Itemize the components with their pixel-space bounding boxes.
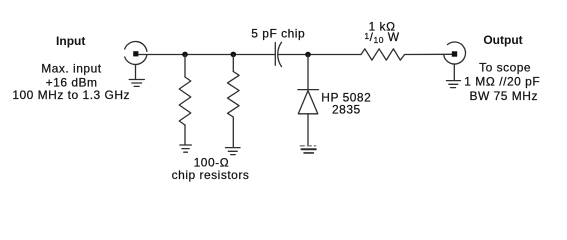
- ground (R2): [226, 148, 241, 155]
- svg-text:Max. input: Max. input: [41, 62, 102, 76]
- resistor R1 (left 100-ohm chip): [179, 55, 191, 145]
- ground (input BNC shell): [129, 65, 144, 87]
- output BNC connector J2: [444, 42, 466, 64]
- svg-text:1 MΩ //20 pF: 1 MΩ //20 pF: [464, 75, 540, 89]
- resistor R2 (right 100-ohm chip): [228, 55, 240, 148]
- node junction at diode D1: [305, 52, 311, 58]
- svg-text:Input: Input: [56, 34, 85, 48]
- ground (output BNC shell): [447, 64, 461, 87]
- capacitor C1 5 pF chip: [275, 42, 281, 66]
- wire: input jack to capacitor: [138, 54, 274, 56]
- ground (D1): [300, 146, 316, 153]
- svg-text:chip resistors: chip resistors: [172, 168, 250, 182]
- svg-text:5 pF chip: 5 pF chip: [251, 26, 305, 40]
- svg-text:To scope: To scope: [479, 60, 531, 74]
- wire: capacitor to resistor R3: [279, 54, 362, 56]
- svg-text:BW 75 MHz: BW 75 MHz: [469, 89, 538, 103]
- node junction at R1: [182, 52, 188, 58]
- input BNC connector J1: [125, 41, 147, 64]
- diode D1 HP 5082-2835: [298, 55, 319, 146]
- svg-text:2835: 2835: [332, 103, 361, 117]
- ground (R1): [180, 145, 192, 152]
- node junction at R2: [231, 52, 237, 58]
- wire: resistor R3 to output jack: [405, 53, 452, 55]
- svg-text:Output: Output: [483, 33, 522, 47]
- svg-text:100 MHz to 1.3 GHz: 100 MHz to 1.3 GHz: [12, 88, 130, 102]
- resistor R3 1 kilohm zigzag: [361, 49, 405, 60]
